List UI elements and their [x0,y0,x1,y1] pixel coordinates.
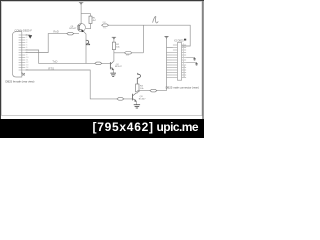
net port diamond out3 [150,89,157,92]
net label A [153,16,159,23]
svg-text:RTS: RTS [48,67,54,71]
wire TxD: X1 pin 7 to Q2 base [25,50,110,63]
transistor Q1 label [69,26,76,30]
wire RxD: X1 pin 8 to Q1 base [25,34,79,53]
connector X1 pins column [19,35,26,70]
resistor R2 [112,42,115,50]
svg-text:232: 232 [102,22,106,24]
power VCC4 symbol [164,36,168,38]
transistor Q3 [133,93,138,102]
connector X1 shell bottom mark [22,72,25,74]
power VCC2 symbol [112,37,116,39]
ground mark at DTR [195,63,198,66]
wire RTS: X1 pin 15 to Q3 base [25,70,132,99]
wire Q2 emitter to ground [113,70,115,73]
connector X2 body (DB25 male, right) [177,43,181,81]
net port diamond net1b [124,52,132,55]
svg-text:RxD: RxD [53,29,58,33]
connector X2 header mark [184,39,186,41]
svg-text:10k: 10k [116,46,120,48]
net port diamond RTS [117,98,124,101]
wire R1 bottom to emitter node [86,24,91,29]
bus tie stubs to X2 left pins [167,53,173,78]
resistor R1 value label [93,18,97,22]
resistor R1 [89,16,92,23]
wire Q2 collector node to riser [114,52,143,54]
svg-text:X2 DB25: X2 DB25 [174,39,184,42]
connector X2 pin number labels [183,44,185,78]
transistor Q1 (with envelope circle) [77,23,85,31]
svg-text:DB25 female (rear view): DB25 female (rear view) [5,80,34,84]
wire bus to X2 pin row 2 [167,47,173,49]
ground G3 [134,105,140,108]
wire Q3 collector output to X2 bus [137,90,166,92]
wire X2 right pin to DTR mark [186,62,196,64]
ground mark at DSR [193,58,196,61]
connector X1 pin number labels [26,35,28,72]
resistor R3 value label [140,86,144,90]
svg-text:25: 25 [22,75,25,77]
wire VCC4 bus down left of X2 [166,38,168,90]
wire R2 bottom to Q2 collector [113,50,115,62]
wire top net to X2 [109,25,191,46]
wire riser to top net [142,25,144,53]
transistor Q2 label [115,64,122,68]
svg-text:DB25 male connector (rear): DB25 male connector (rear) [166,85,199,89]
connector X2 right pins [182,45,187,78]
svg-text:CONN-DB25-F: CONN-DB25-F [15,29,33,33]
stub/hook D2 above R3 [137,73,140,84]
watermark bar [0,119,204,138]
wire X2 right pin to DSR mark [186,57,194,59]
svg-text:BC547: BC547 [115,66,122,68]
wire VCC1 to Q1 collector [80,5,82,24]
transistor Q3 label [139,96,146,100]
svg-text:10k: 10k [126,55,130,57]
ground G2 [110,73,116,76]
watermark text [93,121,198,133]
resistor R2 value label [116,44,120,48]
diode D1 on emitter wire [86,40,90,44]
svg-text:BC547: BC547 [69,28,76,30]
svg-text:14: 14 [183,76,185,78]
svg-text:TTL: TTL [103,28,107,30]
net port diamond TxD [95,62,102,65]
power VCC1 symbol [79,3,83,5]
schematic sheet border [2,2,202,116]
wire Q3 emitter to ground [135,101,137,104]
connector X2 left pins [173,45,178,78]
wire R3 bottom to Q3 collector [136,92,138,93]
svg-text:TxD: TxD [52,59,57,63]
net port diamond RxD [67,32,74,35]
transistor Q2 [110,61,113,70]
wire VCC1 branch to R1 [81,14,90,16]
image frame edges [0,0,204,119]
svg-text:10k: 10k [140,88,144,90]
svg-text:BC547: BC547 [139,98,146,100]
wire VCC2 to R2 [113,40,115,43]
svg-text:4k7: 4k7 [93,20,97,22]
connector X1 shell (DB25 female, left) [12,32,21,77]
wire Q1 emitter down to TxD line [83,31,86,63]
net port diamond net1 (top left) [102,24,109,27]
resistor R3 [136,84,139,92]
ground symbol at X1 pin 1 [25,35,32,38]
